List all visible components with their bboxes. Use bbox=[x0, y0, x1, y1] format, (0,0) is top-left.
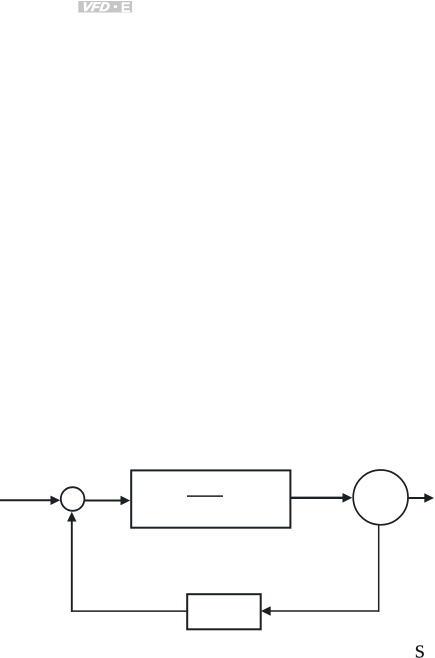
block: feedback rectangle bbox=[187, 594, 261, 629]
VFD-E logo bbox=[78, 0, 132, 16]
svg-text:VFD: VFD bbox=[81, 0, 111, 14]
node: summing junction circle bbox=[61, 487, 85, 511]
node: output circle bbox=[353, 470, 408, 525]
wire: input arrow into summing junction bbox=[0, 496, 60, 505]
wire: summing junction to block with arrow bbox=[85, 496, 130, 505]
svg-text:s: s bbox=[415, 635, 425, 658]
wire: output arrow to right edge bbox=[409, 493, 434, 502]
fraction bar inside block bbox=[187, 495, 223, 497]
block: transfer function rectangle bbox=[131, 470, 290, 527]
svg-text:E: E bbox=[121, 0, 130, 16]
wire: feedback block to summing junction (left then up with arrow) bbox=[67, 512, 187, 612]
wire: feedback from output circle down and left to feedback block bbox=[261, 525, 379, 615]
wire: block to output circle with arrow bbox=[290, 493, 352, 503]
